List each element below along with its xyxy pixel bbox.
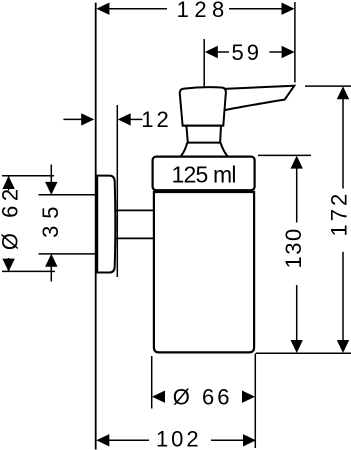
- dimension 59 right arrow: [282, 46, 295, 58]
- dimension 59 line: [217, 51, 283, 53]
- dimension 12 left tail: [63, 118, 82, 120]
- pump neck bottom line: [187, 142, 221, 144]
- svg-text:12: 12: [141, 107, 171, 132]
- dimension Ø62 bottom arrow: [2, 259, 14, 272]
- svg-text:172: 172: [326, 191, 351, 237]
- dimension 35 line bottom segment: [50, 266, 52, 282]
- dimension 128 right arrow: [282, 3, 295, 15]
- dimension 128 line: [108, 8, 282, 10]
- 35 top extension line: [39, 194, 96, 196]
- dimension 59 left arrow: [205, 46, 218, 58]
- dimension 12 right tail: [130, 118, 143, 120]
- pump base right flare: [220, 143, 227, 156]
- dimension Ø62 top arrow: [2, 176, 14, 189]
- pump lever fill: [221, 86, 294, 111]
- dimension Ø62 line top segment: [8, 176, 10, 190]
- container cap: [153, 157, 255, 191]
- pump neck right edge: [219, 126, 222, 143]
- dimension 130 top arrow: [291, 156, 303, 169]
- svg-text:102: 102: [156, 427, 202, 450]
- bracket lower line: [115, 237, 154, 239]
- svg-text:59: 59: [232, 40, 262, 65]
- svg-text:Ø 62: Ø 62: [0, 184, 22, 250]
- dimension 172 bottom arrow: [337, 340, 349, 353]
- pump head bottom line: [183, 125, 224, 127]
- bottom extension line (container bottom): [256, 352, 351, 354]
- dimension 128 left arrow: [96, 3, 109, 15]
- Ø62 bottom extension line: [2, 270, 55, 272]
- dimension 130 line: [296, 167, 298, 342]
- extension line of 12 (plate front): [116, 105, 118, 277]
- extension line left of 59: [203, 39, 205, 87]
- 130 top extension line (cap top): [258, 154, 311, 156]
- pump base left flare: [181, 143, 187, 156]
- dimension 12 left arrow: [81, 113, 94, 125]
- dimension Ø66 right arrow: [242, 391, 255, 403]
- pump lever outline: [224, 86, 294, 111]
- dimension 172 top arrow: [337, 86, 349, 99]
- dimension 35 line top segment: [50, 165, 52, 184]
- dimension 35 top arrow: [45, 182, 57, 195]
- svg-text:125 ml: 125 ml: [171, 161, 235, 187]
- Ø66 / 102 right extension line: [254, 354, 256, 449]
- dimension 102 left arrow: [96, 434, 109, 446]
- 35 bottom extension line: [39, 253, 96, 255]
- pump neck left edge: [186, 126, 187, 143]
- Ø66 left extension line: [151, 356, 153, 409]
- dimension 102 line segments: [108, 439, 244, 441]
- bracket upper line: [115, 209, 154, 211]
- svg-text:Ø 66: Ø 66: [173, 384, 233, 409]
- wall plate: [97, 176, 115, 273]
- dimension 130 bottom arrow: [291, 340, 303, 353]
- container body: [154, 192, 254, 352]
- dimension 172 line: [342, 98, 344, 343]
- dimension Ø62 line bottom segment: [8, 258, 10, 271]
- dimension 102 right arrow: [243, 434, 256, 446]
- extension line right (128/59): [294, 2, 296, 83]
- dimension Ø66 left arrow: [152, 391, 165, 403]
- pump head: [180, 87, 226, 125]
- dimension 12 right arrow: [118, 113, 131, 125]
- Ø62 top extension line: [2, 175, 54, 177]
- 172 top extension line: [305, 85, 351, 87]
- svg-text:130: 130: [281, 227, 306, 268]
- dimension 35 bottom arrow: [45, 254, 57, 267]
- wall line: [95, 3, 97, 450]
- svg-text:128: 128: [177, 0, 230, 22]
- svg-text:35: 35: [38, 199, 63, 237]
